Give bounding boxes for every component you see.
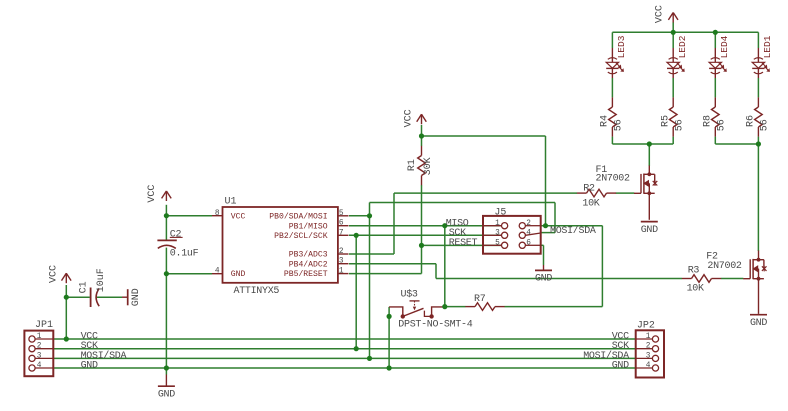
svg-text:RESET: RESET xyxy=(449,238,478,249)
svg-text:PB0/SDA/MOSI: PB0/SDA/MOSI xyxy=(269,212,327,221)
svg-text:VCC: VCC xyxy=(404,109,415,127)
svg-text:GND: GND xyxy=(535,274,552,285)
svg-text:8: 8 xyxy=(215,210,220,218)
svg-text:1: 1 xyxy=(37,333,42,341)
svg-text:VCC: VCC xyxy=(655,5,666,23)
svg-text:R4: R4 xyxy=(600,115,611,127)
svg-text:56: 56 xyxy=(614,119,625,131)
svg-text:56: 56 xyxy=(760,119,771,131)
svg-text:R8: R8 xyxy=(702,115,713,127)
svg-text:VCC: VCC xyxy=(147,185,158,203)
svg-text:GND: GND xyxy=(612,360,629,371)
svg-text:JP1: JP1 xyxy=(35,320,53,331)
svg-text:6: 6 xyxy=(526,240,531,248)
svg-text:LED4: LED4 xyxy=(719,35,730,58)
svg-text:R3: R3 xyxy=(688,266,700,277)
svg-text:PB5/RESET: PB5/RESET xyxy=(284,270,328,279)
svg-text:LED1: LED1 xyxy=(762,35,773,58)
svg-text:5: 5 xyxy=(495,240,500,248)
svg-text:GND: GND xyxy=(750,318,767,329)
svg-text:GND: GND xyxy=(81,360,98,371)
svg-text:C1: C1 xyxy=(78,281,89,293)
svg-text:R2: R2 xyxy=(583,184,595,195)
svg-text:2N7002: 2N7002 xyxy=(707,261,742,272)
svg-text:LED3: LED3 xyxy=(616,35,627,58)
svg-text:56: 56 xyxy=(674,119,685,131)
svg-text:1: 1 xyxy=(646,333,651,341)
svg-text:30K: 30K xyxy=(423,157,434,175)
svg-text:R7: R7 xyxy=(474,294,486,305)
svg-text:R1: R1 xyxy=(407,159,418,171)
svg-text:2: 2 xyxy=(37,343,42,351)
svg-text:3: 3 xyxy=(339,258,344,266)
svg-text:56: 56 xyxy=(716,119,727,131)
svg-text:VCC: VCC xyxy=(48,265,59,283)
svg-text:C2: C2 xyxy=(170,229,182,240)
svg-text:10K: 10K xyxy=(582,198,599,209)
svg-text:GND: GND xyxy=(158,389,175,400)
svg-text:DPST-NO-SMT-4: DPST-NO-SMT-4 xyxy=(398,319,472,330)
svg-text:3: 3 xyxy=(495,230,500,238)
svg-text:R5: R5 xyxy=(660,115,671,127)
svg-text:7: 7 xyxy=(339,229,344,237)
svg-text:U1: U1 xyxy=(225,197,237,208)
svg-text:1: 1 xyxy=(495,220,500,228)
svg-text:4: 4 xyxy=(215,268,220,276)
svg-text:4: 4 xyxy=(526,230,531,238)
svg-text:4: 4 xyxy=(37,362,42,370)
svg-text:GND: GND xyxy=(131,288,142,306)
svg-text:2N7002: 2N7002 xyxy=(596,173,631,184)
svg-text:2: 2 xyxy=(526,220,531,228)
svg-text:PB4/ADC2: PB4/ADC2 xyxy=(289,260,328,269)
svg-text:2: 2 xyxy=(646,343,651,351)
svg-text:3: 3 xyxy=(646,352,651,360)
svg-text:U$3: U$3 xyxy=(401,289,418,301)
svg-text:0.1uF: 0.1uF xyxy=(170,248,199,259)
svg-text:J5: J5 xyxy=(494,208,506,219)
svg-text:ATTINYX5: ATTINYX5 xyxy=(234,286,280,297)
svg-text:6: 6 xyxy=(339,220,344,228)
svg-text:PB2/SCL/SCK: PB2/SCL/SCK xyxy=(274,232,328,241)
svg-text:PB3/ADC3: PB3/ADC3 xyxy=(289,251,328,260)
svg-text:2: 2 xyxy=(339,248,344,256)
svg-text:VCC: VCC xyxy=(231,212,246,221)
svg-text:GND: GND xyxy=(641,225,658,236)
svg-text:LED2: LED2 xyxy=(677,35,688,58)
svg-text:GND: GND xyxy=(231,270,246,279)
svg-text:JP2: JP2 xyxy=(637,321,655,332)
svg-text:1: 1 xyxy=(339,268,344,276)
svg-text:MOSI/SDA: MOSI/SDA xyxy=(550,225,596,237)
svg-text:PB1/MISO: PB1/MISO xyxy=(289,222,328,231)
svg-text:10uF: 10uF xyxy=(96,268,107,292)
svg-text:5: 5 xyxy=(339,210,344,218)
svg-text:4: 4 xyxy=(646,362,651,370)
svg-text:3: 3 xyxy=(37,352,42,360)
svg-text:10K: 10K xyxy=(687,283,704,294)
svg-text:R6: R6 xyxy=(746,115,757,127)
